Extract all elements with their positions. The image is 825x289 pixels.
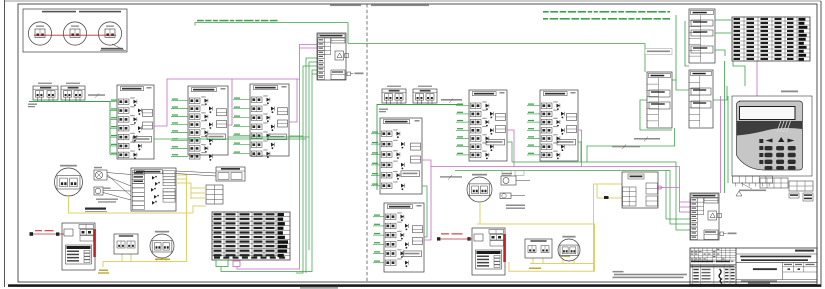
control panel U13 S2000M	[690, 193, 737, 240]
module A1	[117, 85, 154, 159]
power supply G2	[472, 228, 506, 275]
sheet note text	[330, 4, 361, 6]
220V wire (yellow)	[477, 202, 595, 271]
control wires	[96, 173, 131, 203]
module A2	[188, 86, 228, 161]
siren S1	[501, 173, 530, 185]
relay module U12	[622, 172, 680, 208]
module A5	[380, 118, 422, 194]
keypad terminal row	[733, 176, 773, 187]
junction label	[645, 49, 672, 55]
network wires (green)	[348, 15, 745, 193]
relay unit U14	[216, 167, 245, 181]
220V wire (red)	[437, 233, 472, 240]
io module U9	[689, 9, 715, 63]
cable label (green)	[197, 20, 278, 22]
detector box B1	[33, 86, 58, 102]
detector type labels	[38, 83, 80, 84]
wire	[233, 98, 250, 154]
detector box B3	[382, 89, 406, 105]
loop wire (green)	[377, 105, 463, 191]
fan unit K2	[94, 187, 111, 195]
battery label	[739, 183, 766, 191]
junction boxes on trunk	[502, 171, 524, 176]
terminal block XT3	[760, 178, 788, 188]
light board HL2	[525, 239, 552, 258]
wire	[110, 100, 117, 155]
sheet 2 caption	[371, 4, 429, 6]
power supply G1	[62, 223, 96, 270]
cable label	[440, 175, 462, 180]
cable label	[379, 99, 462, 113]
wire	[195, 23, 348, 44]
wire labels	[28, 94, 105, 108]
detector type labels	[387, 86, 432, 87]
notes text	[613, 271, 688, 278]
power wire bundle (green)	[154, 58, 317, 273]
control panel U1 S2000M	[317, 33, 364, 80]
module A8	[540, 90, 578, 161]
wire	[456, 104, 469, 155]
wire	[171, 99, 188, 157]
detector box B4	[413, 89, 437, 105]
interface trunk (magenta)	[422, 130, 690, 240]
sounder HA4	[558, 236, 580, 261]
wire	[373, 215, 384, 263]
module A4 internals	[132, 171, 175, 210]
interface wire (magenta)	[721, 61, 758, 193]
keypad keys	[759, 137, 795, 170]
module A3	[250, 84, 289, 158]
ground symbol	[736, 191, 742, 196]
bus labels (green)	[543, 11, 670, 20]
module A6	[384, 203, 424, 272]
title block (stamp)	[690, 248, 817, 284]
loop wire to module A1	[29, 102, 110, 155]
sounder HA2	[150, 231, 174, 258]
terminal connection table XT2	[732, 17, 810, 61]
legend box: detectors in circles	[23, 9, 127, 52]
220V feed (yellow)	[594, 184, 623, 271]
siren S2	[500, 193, 525, 199]
control keypad S2000M	[732, 91, 812, 177]
fan unit K1	[94, 167, 107, 180]
io module U10	[689, 70, 713, 128]
terminal connection table XT1	[212, 212, 290, 260]
detector loop wire (red)	[34, 34, 116, 36]
cabinet label	[85, 208, 107, 212]
terminal block T2	[206, 185, 223, 204]
wire	[371, 132, 380, 186]
junction boxes under table	[216, 260, 240, 267]
module A7	[469, 90, 507, 161]
terminal block XT4	[789, 181, 813, 201]
io module U8	[647, 72, 672, 128]
detector box B2	[61, 86, 85, 102]
sounder HA3	[467, 174, 492, 202]
label	[155, 259, 170, 261]
220V input wire (red)	[30, 230, 65, 236]
control wires	[176, 171, 216, 176]
cable notes	[506, 205, 525, 209]
sounder HA1	[55, 165, 83, 196]
margin stamp text	[300, 287, 338, 288]
cable labels	[612, 137, 660, 150]
interface wire RS-485 (magenta)	[154, 45, 317, 270]
light board HL1	[114, 234, 138, 254]
power trunk (green)	[422, 128, 690, 237]
220V wire (yellow)	[69, 175, 207, 274]
sheet boundary (dashed)	[366, 4, 368, 282]
wire	[527, 104, 540, 155]
